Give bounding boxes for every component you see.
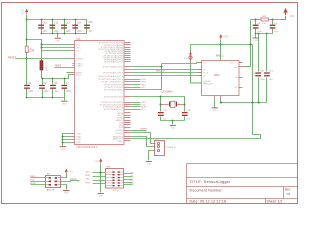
ground below U2: [212, 99, 218, 113]
wire: bottom rail of top right caps: [256, 33, 273, 35]
svg-text:VCC: VCC: [290, 15, 295, 18]
JP2 right RESET stub: [61, 181, 80, 182]
capacitor C15: [84, 22, 93, 33]
ISP connector JP2: [46, 174, 61, 192]
crystal Q1: [161, 91, 185, 107]
svg-text:C14: C14: [77, 23, 82, 25]
capacitor C12: [49, 23, 59, 33]
title block: [187, 164, 298, 204]
top right pull-up rail: [251, 19, 281, 21]
svg-text:RESET: RESET: [76, 58, 84, 60]
wire: VCC drop to bottom rail: [252, 45, 254, 103]
ground below lower cap row: [61, 98, 67, 106]
svg-text:(PCINT17/TXD)PD1: (PCINT17/TXD)PD1: [104, 87, 124, 89]
svg-text:AREF: AREF: [55, 65, 62, 68]
U2 left pin stubs: [199, 63, 202, 83]
JP2 right GND: [61, 185, 70, 195]
right vertical with capacitor C20: [255, 33, 265, 103]
svg-text:L1 10uH: L1 10uH: [45, 62, 47, 71]
capacitor C4 (top right): [270, 20, 279, 34]
svg-text:(PCINT16/RXD)PD0: (PCINT16/RXD)PD0: [104, 84, 124, 86]
inductor L1 (AVCC filter): [40, 60, 47, 71]
svg-text:1/2: 1/2: [286, 192, 290, 196]
svg-text:(PCINT10/ADC2)PC2: (PCINT10/ADC2)PC2: [103, 66, 124, 69]
svg-text:100n: 100n: [54, 31, 60, 33]
svg-text:MEGA48/88/168-A: MEGA48/88/168-A: [77, 146, 98, 149]
svg-text:VCC: VCC: [76, 44, 81, 46]
svg-text:MISO: MISO: [30, 176, 36, 178]
top bypass cap row rail: [27, 20, 87, 34]
IC1 right pin stubs: [125, 43, 131, 141]
capacitor C7: [61, 83, 71, 93]
junction dots on rail: [255, 19, 257, 21]
svg-text:(PCINT22/OC0A)PD6: (PCINT22/OC0A)PD6: [103, 106, 124, 109]
svg-text:RXD: RXD: [86, 175, 91, 177]
svg-text:100n: 100n: [29, 91, 35, 93]
XTAL/AREF label stubs on IC1 left: [55, 67, 72, 69]
ground below crystal: [170, 124, 176, 130]
svg-text:SCK: SCK: [30, 180, 35, 182]
svg-text:C12: C12: [54, 23, 59, 25]
labeled stub pins on IC1 right (mid cluster): [131, 103, 141, 110]
svg-text:OWIRE: OWIRE: [140, 128, 147, 130]
svg-text:100n: 100n: [260, 79, 266, 81]
IC1 GND pins trunk and ground: [60, 134, 72, 151]
capacitor C18: [182, 110, 191, 120]
svg-text:100n: 100n: [77, 31, 83, 33]
VCC pin wires to IC1: [42, 45, 72, 51]
JP3 VCC arrow and GND stem: [95, 158, 104, 197]
svg-text:(PCINT11/ADC3)PC3: (PCINT11/ADC3)PC3: [103, 72, 124, 75]
svg-text:TITLE: SensorLogger: TITLE: SensorLogger: [190, 180, 232, 184]
wire: bottom collection rail right: [221, 99, 267, 103]
svg-text:LED1: LED1: [141, 79, 147, 81]
svg-text:(PCINT23/AIN1)PD7: (PCINT23/AIN1)PD7: [104, 108, 124, 111]
svg-text:GND: GND: [76, 136, 81, 138]
svg-text:MOSI: MOSI: [30, 183, 36, 185]
junction dots on left vertical: [26, 19, 28, 21]
op-amp style main MCU IC1 box: [75, 37, 125, 149]
svg-text:DTR: DTR: [86, 182, 91, 184]
labeled stub pin y130: [131, 130, 147, 132]
U2 right pin stubs: [239, 63, 245, 88]
svg-text:C13: C13: [66, 23, 71, 25]
svg-text:RXD: RXD: [130, 183, 135, 185]
U2 bottom pin stubs: [215, 96, 221, 99]
svg-text:(PCINT19/INT1)PD3: (PCINT19/INT1)PD3: [104, 97, 124, 99]
svg-text:VCC: VCC: [76, 47, 81, 49]
wire: trunk below L1 to analog rail: [41, 71, 43, 79]
svg-text:C15: C15: [89, 22, 94, 24]
svg-text:CD/DAT3: CD/DAT3: [203, 80, 211, 83]
FTDI connector JP3: [106, 167, 124, 193]
svg-text:VDD: VDD: [230, 63, 235, 65]
crystal network: XTAL wires: [131, 97, 185, 124]
supply flag +3V3: [184, 52, 202, 83]
svg-text:AVR ISP: AVR ISP: [47, 189, 56, 192]
junction dots cap row: [41, 19, 77, 35]
capacitor C13: [61, 23, 71, 33]
svg-text:RESET: RESET: [8, 56, 17, 59]
svg-text:GND: GND: [130, 172, 135, 174]
svg-text:VCC: VCC: [223, 36, 228, 39]
svg-text:TXD: TXD: [86, 179, 91, 181]
wire: VCC down to U2 top: [220, 40, 222, 61]
svg-text:MMC_CS: MMC_CS: [156, 71, 166, 73]
svg-text:REV:: REV:: [285, 187, 291, 191]
svg-text:Q1 16MHz: Q1 16MHz: [162, 91, 174, 93]
JP2 left wires with net labels: [31, 178, 46, 185]
svg-text:Date: 05.12.12 22:18: Date: 05.12.12 22:18: [190, 199, 227, 203]
svg-text:100n: 100n: [257, 31, 263, 33]
wire: main left vertical VCC net: [26, 15, 28, 47]
cap stubs: [42, 20, 76, 34]
wire: IC pin joining vertical: [131, 66, 162, 68]
svg-text:Document Number:: Document Number:: [190, 189, 224, 193]
right vertical with capacitor C21: [264, 33, 273, 103]
ground below top cap row: [55, 34, 61, 43]
svg-text:TXD: TXD: [130, 181, 134, 183]
svg-text:(PCINT9/ADC1)PC1: (PCINT9/ADC1)PC1: [104, 61, 124, 64]
resistor R17 (horizontal): [261, 16, 269, 25]
svg-text:VCC: VCC: [95, 161, 100, 163]
svg-text:GND2: GND2: [117, 141, 124, 143]
long wire from IC1 PD7 to right rail: [131, 103, 261, 139]
svg-text:VCC: VCC: [130, 178, 135, 180]
svg-text:VCC: VCC: [21, 9, 25, 15]
capacitor C3 (top right): [253, 20, 263, 34]
IC1 left pin names: [76, 44, 84, 144]
svg-text:1-WIRE IF: 1-WIRE IF: [166, 147, 177, 149]
ground below JP1: [146, 162, 152, 166]
svg-text:100n: 100n: [66, 91, 72, 93]
MMC/SD card IC U2 box: [202, 53, 240, 95]
capacitor C2: [39, 83, 49, 93]
svg-text:RESET: RESET: [70, 179, 78, 181]
svg-text:VCC: VCC: [69, 171, 74, 173]
1-wire connector JP1 wires: [131, 133, 153, 161]
connector JP1 (1-wire): [153, 139, 177, 156]
svg-text:SDA: SDA: [141, 106, 146, 109]
svg-text:DAT0-DAT2: DAT0-DAT2: [203, 83, 213, 86]
svg-text:(PCINT12/SDA/ADC4)PC4: (PCINT12/SDA/ADC4)PC4: [98, 75, 124, 78]
wire: VCC branch to IC supply trunk: [27, 40, 42, 61]
VCC arrow top right: [281, 8, 296, 20]
svg-text:(PCINT18/INT0)PD2: (PCINT18/INT0)PD2: [104, 90, 124, 92]
JP2 right VCC: [61, 169, 74, 178]
capacitor C17: [158, 110, 168, 120]
resistor R16 (vertical, reset pullup): [25, 46, 35, 53]
VCC arrow above U2: [219, 34, 229, 39]
wire: branch to 3V3 supply glyph: [191, 44, 253, 46]
svg-text:C19: C19: [43, 23, 48, 25]
svg-text:100n: 100n: [44, 91, 50, 93]
svg-text:100n: 100n: [66, 31, 72, 33]
SPI bus wires IC1 to U2: [131, 63, 202, 76]
svg-text:GND: GND: [76, 139, 81, 141]
lower cap row (analog bypass): [27, 97, 65, 99]
svg-text:GND: GND: [76, 133, 81, 135]
capacitor C6: [50, 83, 59, 93]
wire: RESET net below R16 down to C1: [26, 53, 28, 85]
wire: vertical link and lower return wire: [131, 64, 162, 90]
capacitor C19: [38, 23, 47, 33]
wire: U2 pin to right vertical: [245, 66, 251, 68]
wire: RESET horizontal to IC1: [16, 58, 72, 60]
svg-text:AVCC: AVCC: [76, 73, 82, 76]
svg-text:(T1)PD5: (T1)PD5: [115, 133, 124, 135]
labeled stub pins on IC1 right (upper cluster): [131, 80, 141, 88]
svg-text:Sheet: 1/2: Sheet: 1/2: [267, 199, 283, 203]
svg-text:SCLK: SCLK: [203, 72, 209, 74]
svg-text:IC1: IC1: [77, 37, 82, 41]
JP3 right wires with labels: [124, 174, 133, 185]
frame border: [2, 3, 298, 204]
IC1 right pin names (smudge text): [98, 43, 124, 143]
capacitor C14: [72, 23, 82, 33]
capacitor C1: [24, 83, 34, 93]
VCC supply symbol top-left: [21, 9, 29, 15]
svg-text:(PCINT13/SCL/ADC5)PC5: (PCINT13/SCL/ADC5)PC5: [98, 78, 124, 81]
svg-text:XTAL2: XTAL2: [76, 65, 83, 68]
svg-text:GND: GND: [76, 142, 81, 144]
IC1 left pin stubs: [72, 45, 75, 143]
analog rail + AVCC/AREF bend: [42, 75, 72, 79]
ground below C3: [253, 34, 259, 43]
svg-text:VCC: VCC: [76, 50, 81, 52]
svg-text:MMC: MMC: [214, 74, 220, 77]
svg-text:FTDI: FTDI: [113, 190, 118, 192]
JP3 left wires with labels: [93, 173, 106, 184]
svg-text:(T0)PD4: (T0)PD4: [115, 130, 124, 132]
